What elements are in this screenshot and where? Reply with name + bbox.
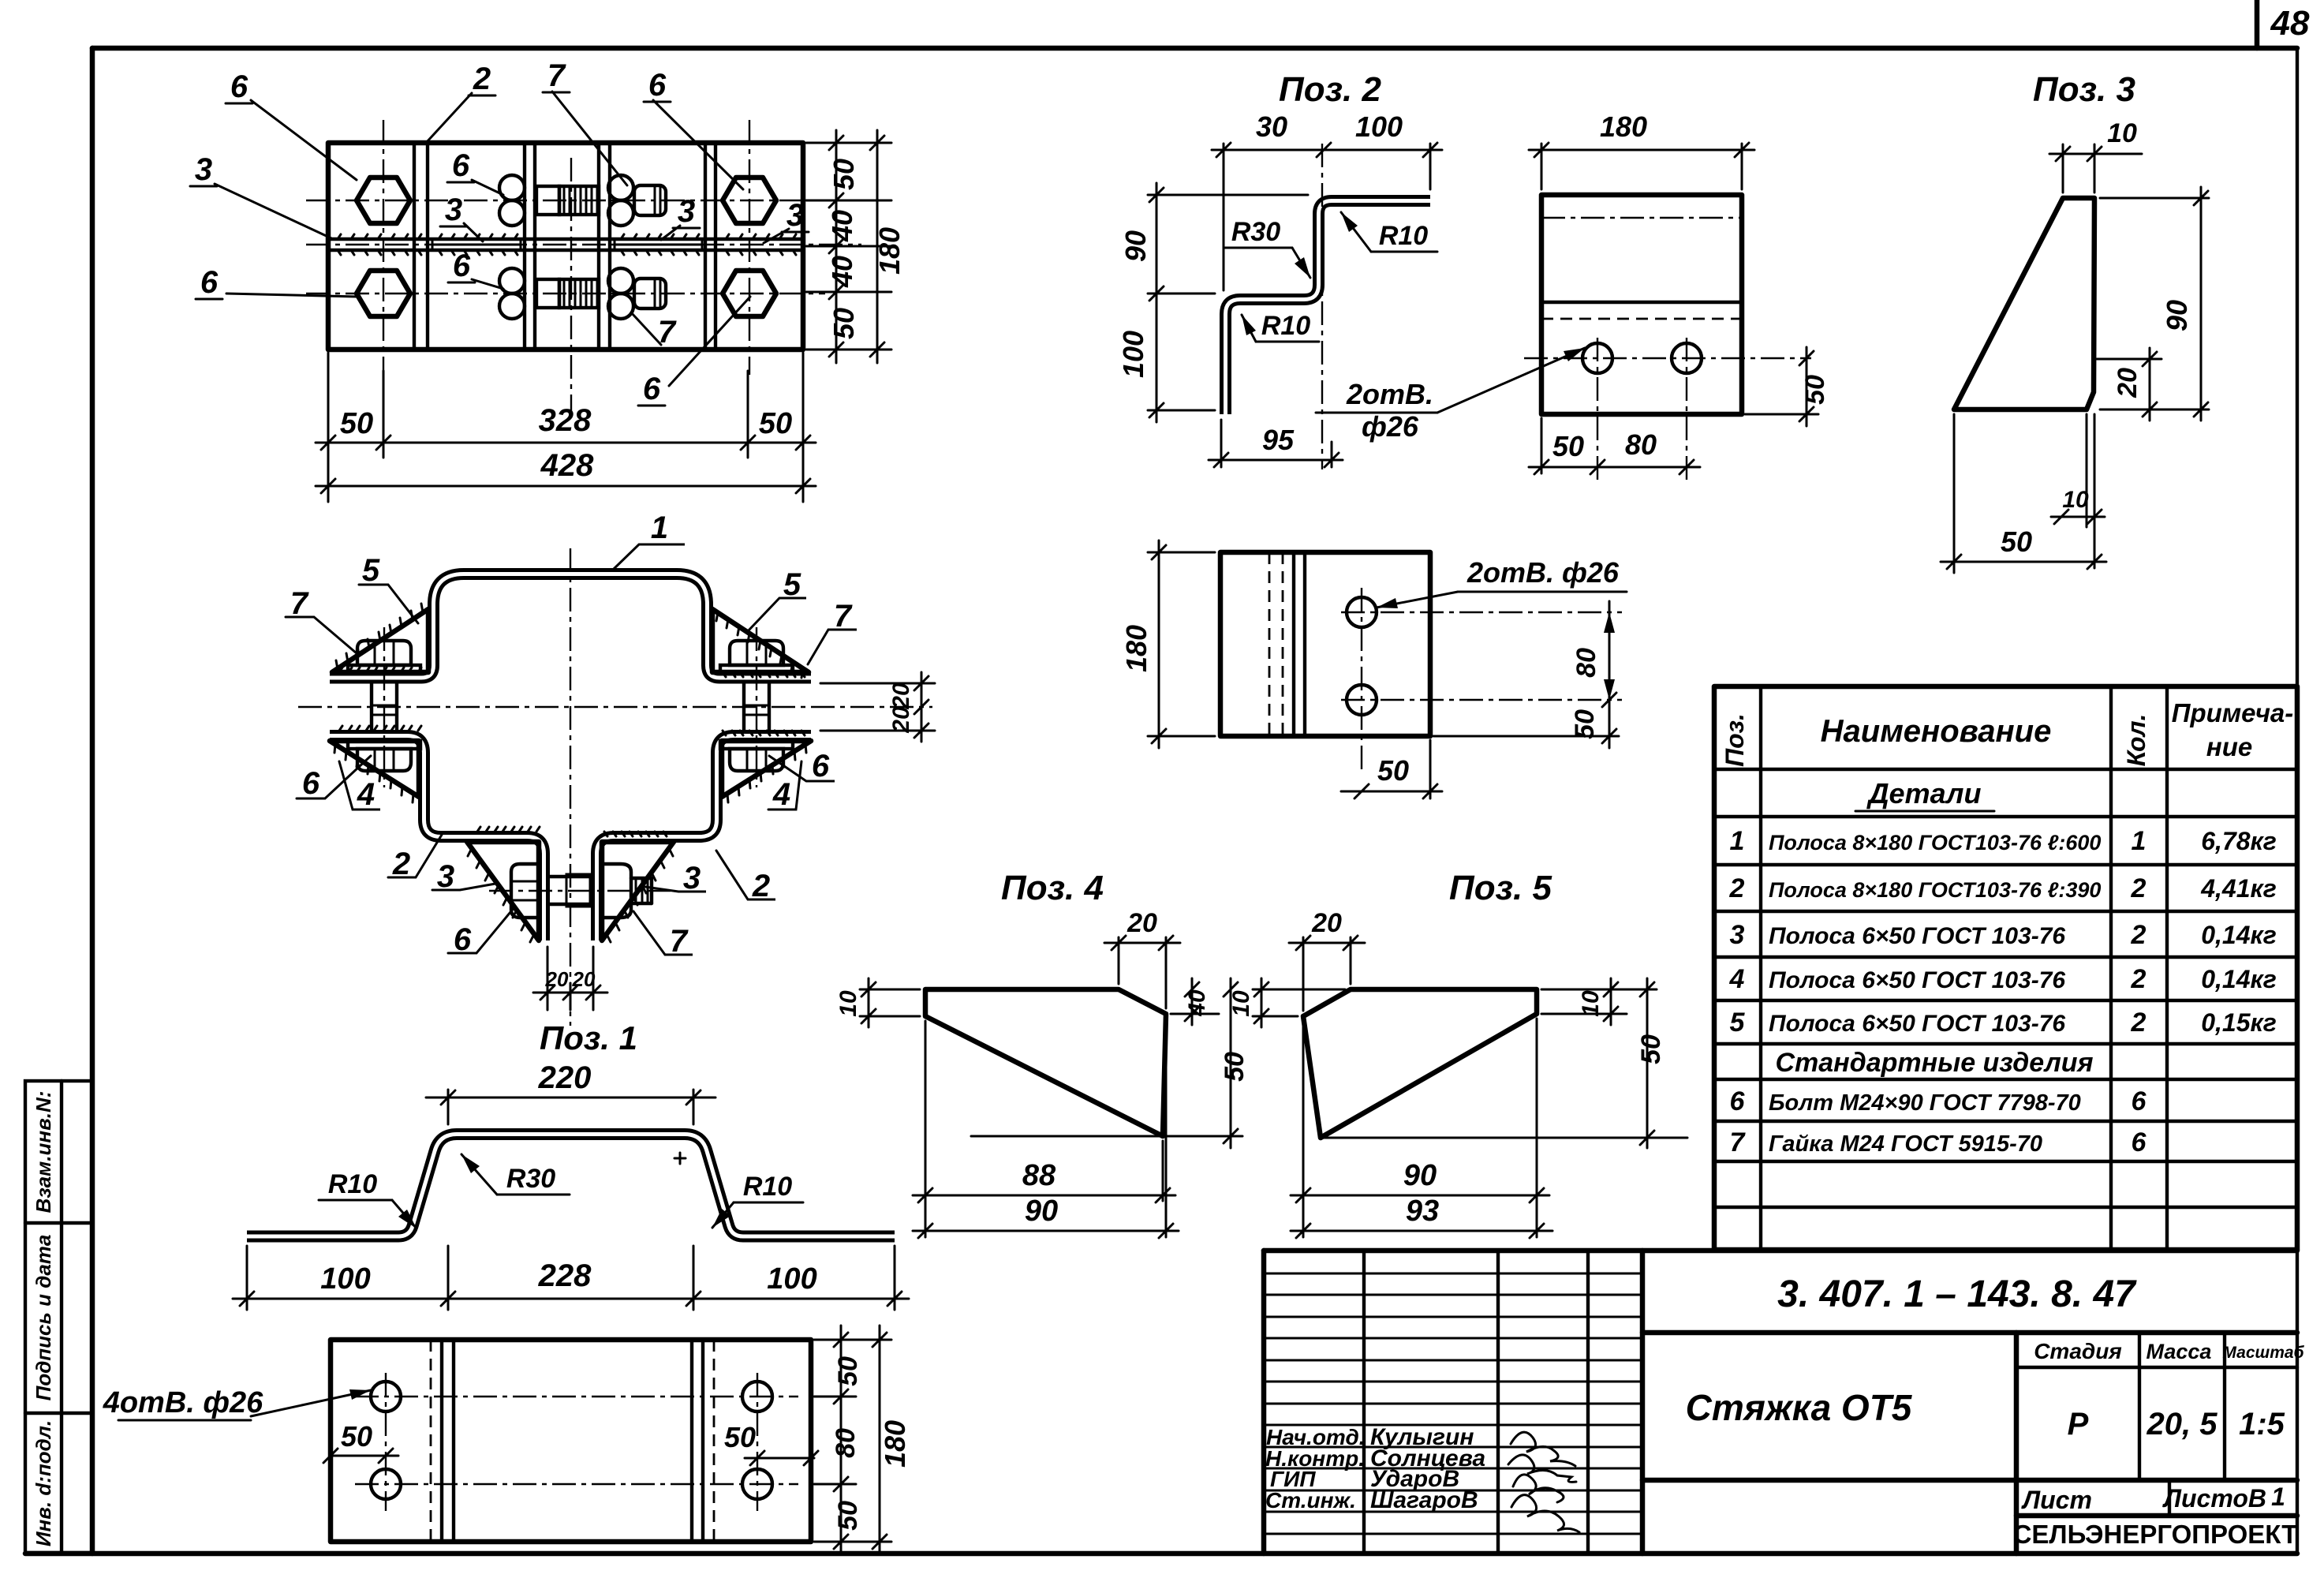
svg-text:4отВ. ф26: 4отВ. ф26: [103, 1386, 263, 1419]
view: part 2 plate lower: [1220, 552, 1430, 736]
svg-text:3: 3: [1730, 920, 1745, 950]
label R30 with leader (part1): [461, 1154, 570, 1195]
part 2 Z-profile detail outline: [1226, 201, 1431, 415]
svg-text:90: 90: [1403, 1159, 1437, 1192]
plate edge lines: [413, 143, 416, 350]
dimension 180 (plan right total): [870, 130, 906, 363]
label 3 leader (front view): [432, 859, 495, 894]
svg-text:2отВ. ф26: 2отВ. ф26: [1467, 556, 1620, 589]
svg-text:20: 20: [888, 706, 914, 734]
svg-text:Стадия: Стадия: [2034, 1339, 2122, 1363]
wedge 5 left (gusset): [332, 604, 428, 672]
dimension 10 (part4 left): [835, 978, 920, 1027]
svg-text:180: 180: [873, 227, 906, 275]
svg-text:Масштаб: Масштаб: [2222, 1344, 2304, 1362]
label 3 leader (plan): [764, 198, 809, 243]
part 3 strip left (plan): [432, 239, 521, 250]
svg-text:6: 6: [643, 372, 661, 406]
svg-text:7: 7: [547, 58, 566, 93]
dimension 10 (part3 top): [2049, 118, 2142, 193]
label 6 leader (plan): [196, 265, 357, 300]
bottom bolt 6 with nut 7 (front view): [489, 864, 672, 918]
dimension 90-93 (part5 bottom): [1291, 1019, 1552, 1238]
svg-text:50: 50: [341, 1420, 372, 1453]
svg-text:2: 2: [392, 847, 410, 881]
table header Примечание: [2172, 698, 2294, 761]
part 4 wedge outline: [925, 989, 1168, 1136]
label 5 leader (front view): [359, 553, 418, 623]
coupling bolt 6 with nut 7, upper row plan: [499, 175, 666, 226]
svg-text:2: 2: [2131, 873, 2147, 903]
label 2 leader (front view): [716, 851, 775, 903]
centerline left bolt column: [383, 120, 384, 375]
wedge 4 right (gusset under lug): [722, 741, 811, 802]
svg-text:3: 3: [678, 194, 695, 229]
centerlines part2 plate: [1524, 338, 1811, 483]
wedge 5 right (gusset): [712, 609, 809, 678]
svg-text:Полоса 6×50 ГОСТ 103-76: Полоса 6×50 ГОСТ 103-76: [1769, 1011, 2065, 1037]
dimension 20-20 (front bottom): [533, 947, 607, 1010]
coupling bolt 6 with nut 7, lower row plan: [499, 268, 666, 319]
hole f26 number 1 (part1 plan): [371, 1382, 401, 1412]
bolt 6 with nut 7 left (front view): [348, 627, 420, 787]
svg-text:Инв. d:подл.: Инв. d:подл.: [32, 1420, 55, 1546]
dimension 10 (part3 bottom step): [2051, 414, 2105, 568]
label 7 leader (front view): [808, 599, 857, 664]
label 3 leader (plan): [440, 193, 483, 241]
dimension 50 (part2 plate right): [1745, 347, 1830, 426]
svg-text:40: 40: [826, 210, 858, 242]
svg-text:50: 50: [759, 407, 792, 440]
bolt 6 hex head plan 3: [357, 271, 410, 316]
dimension 40 (part4 right upper): [1171, 978, 1219, 1025]
svg-text:90: 90: [1025, 1195, 1058, 1228]
label 2 leader (front view): [388, 835, 442, 881]
part 2 right Z-bracket outline: [597, 736, 812, 941]
dimension 50-80 (part2 plate bottom): [1529, 418, 1700, 474]
svg-text:40: 40: [826, 256, 858, 288]
svg-text:10: 10: [2062, 487, 2089, 513]
svg-text:R10: R10: [1379, 221, 1428, 251]
centerline seam horizontal: [306, 244, 861, 245]
label 7 leader (front view): [286, 586, 357, 653]
table row part 2: [1729, 873, 2277, 903]
centerline bolt row upper: [306, 200, 825, 201]
svg-text:0,14кг: 0,14кг: [2201, 965, 2277, 993]
dimension 90 (part3 right): [2100, 187, 2209, 421]
label 6 leader (plan): [226, 69, 357, 180]
svg-text:Наименование: Наименование: [1821, 714, 2052, 749]
svg-text:428: 428: [540, 448, 594, 483]
dimension 50 (part5 right): [1636, 978, 1666, 1148]
svg-text:6: 6: [2132, 1127, 2147, 1157]
svg-text:R10: R10: [328, 1169, 377, 1199]
view: part 1 plan detail: [331, 1340, 811, 1542]
svg-text:50: 50: [833, 1501, 863, 1531]
svg-text:6: 6: [812, 749, 830, 783]
svg-text:2: 2: [473, 62, 491, 96]
svg-text:Лист: Лист: [2021, 1486, 2092, 1514]
svg-text:10: 10: [1578, 990, 1604, 1017]
svg-text:Ст.инж.: Ст.инж.: [1265, 1488, 1356, 1513]
part 3 strip right (plan): [615, 239, 702, 250]
centerline mid vertical: [570, 158, 572, 414]
svg-text:1: 1: [2132, 826, 2147, 856]
svg-text:220: 220: [538, 1060, 592, 1095]
label 7 leader (plan): [631, 312, 680, 350]
svg-text:Поз. 4: Поз. 4: [1001, 869, 1104, 907]
svg-text:10: 10: [2107, 118, 2137, 148]
bolt 6 hex head plan 2: [723, 178, 776, 223]
label R10 lower with leader (part2): [1242, 311, 1319, 342]
view: part 2 plate (flattened) top: [1541, 195, 1742, 414]
svg-text:Полоса 8×180 ГОСТ103-76 ℓ:390: Полоса 8×180 ГОСТ103-76 ℓ:390: [1769, 878, 2101, 902]
svg-text:Поз. 3: Поз. 3: [2033, 70, 2135, 109]
svg-text:Болт М24×90 ГОСТ 7798-70: Болт М24×90 ГОСТ 7798-70: [1769, 1090, 2081, 1116]
dimension 90-100 (part2 left): [1117, 183, 1308, 422]
svg-text:88: 88: [1022, 1159, 1056, 1192]
svg-text:50: 50: [1636, 1034, 1666, 1064]
svg-text:4: 4: [1729, 964, 1745, 994]
svg-text:50: 50: [833, 1356, 863, 1386]
view: part 1 profile detail: [247, 1135, 895, 1237]
part 3 wedge outline: [1954, 198, 2094, 409]
svg-text:1: 1: [2271, 1483, 2285, 1511]
svg-text:5: 5: [783, 567, 801, 602]
wedge 3 right (gusset at centre): [602, 842, 674, 942]
title block grid: [1264, 1251, 2297, 1554]
dimension 220 (part1 top): [426, 1060, 716, 1124]
label 4 leader (front view): [339, 761, 380, 812]
svg-text:328: 328: [539, 403, 592, 438]
dimension 180 (part1 plan total): [872, 1326, 911, 1554]
label 3 leader (front view): [645, 861, 706, 896]
svg-text:Р: Р: [2068, 1407, 2089, 1442]
svg-text:4: 4: [357, 777, 375, 812]
svg-text:7: 7: [1730, 1127, 1747, 1157]
svg-text:180: 180: [1120, 625, 1153, 672]
svg-text:R30: R30: [1231, 217, 1280, 247]
part 2 left Z-bracket outline: [330, 736, 544, 941]
svg-text:6: 6: [2132, 1086, 2147, 1116]
svg-text:6: 6: [453, 249, 471, 283]
svg-text:80: 80: [1571, 648, 1601, 678]
svg-text:93: 93: [1406, 1195, 1439, 1228]
wedge 3 left (gusset at centre): [467, 842, 539, 942]
svg-text:20: 20: [545, 967, 569, 991]
bolt 6 hex head plan 4: [723, 271, 776, 316]
bolt 6 with nut 7 right (front view): [720, 627, 793, 787]
bend axis chain line (part2): [1321, 144, 1323, 469]
dimension 20-20 (front right): [820, 672, 935, 742]
label 6 leader (plan): [644, 68, 743, 189]
svg-text:4,41кг: 4,41кг: [2200, 874, 2277, 903]
svg-text:3: 3: [786, 198, 804, 233]
svg-text:Примеча-: Примеча-: [2172, 698, 2294, 727]
dimension 50 (part1 plan right): [724, 1421, 818, 1465]
svg-text:20: 20: [1311, 908, 1342, 938]
hole f26 number 3 (part1 plan): [742, 1382, 772, 1412]
label 2отв ф26 with leader (part2 lower): [1377, 556, 1627, 608]
svg-text:3: 3: [683, 861, 701, 896]
svg-text:90: 90: [2161, 300, 2193, 331]
svg-text:3: 3: [445, 193, 462, 227]
dimension 30-100 (part2 top): [1212, 110, 1442, 290]
view: assembly plan (top view): [306, 120, 861, 414]
svg-text:10: 10: [1228, 990, 1254, 1017]
svg-text:2: 2: [2131, 1008, 2147, 1038]
svg-text:100: 100: [1117, 331, 1149, 378]
svg-text:50: 50: [2001, 525, 2032, 558]
svg-text:6: 6: [200, 265, 219, 300]
svg-text:Поз. 2: Поз. 2: [1279, 70, 1381, 109]
table section Детали: [1855, 777, 1994, 811]
svg-text:Детали: Детали: [1866, 777, 1982, 810]
dimension 20 (part4 top): [1104, 908, 1180, 1008]
svg-text:50: 50: [340, 407, 373, 440]
label R30 with leader (part2): [1224, 217, 1310, 278]
svg-text:40: 40: [1184, 989, 1210, 1017]
dimension 50 (part4 right): [1168, 978, 1250, 1148]
label 5 leader (front view): [748, 567, 806, 631]
plate outline (parts 1,2 top view): [328, 143, 803, 350]
label 6 leader (front view): [769, 749, 835, 783]
svg-text:Масса: Масса: [2147, 1340, 2212, 1363]
hole f26 right (part2 plate): [1672, 343, 1702, 373]
svg-text:6: 6: [302, 766, 320, 801]
svg-text:5: 5: [362, 553, 380, 588]
label 6 leader (plan): [638, 297, 750, 406]
svg-text:ШагароВ: ШагароВ: [1370, 1487, 1478, 1513]
svg-text:50: 50: [1570, 709, 1600, 739]
label 3 leader (plan): [661, 194, 700, 240]
svg-text:48: 48: [2270, 4, 2310, 43]
part 1 omega strap outline: [330, 574, 811, 679]
label 6 leader (front view): [297, 756, 371, 801]
svg-text:7: 7: [290, 586, 309, 621]
svg-text:80: 80: [831, 1428, 861, 1458]
label 6 leader (plan): [447, 148, 503, 195]
svg-text:50: 50: [724, 1421, 756, 1453]
svg-text:50: 50: [1552, 430, 1584, 462]
svg-text:3: 3: [195, 152, 212, 187]
svg-text:90: 90: [1119, 230, 1152, 262]
centerline right bolt column: [749, 120, 750, 375]
svg-text:Стяжка ОТ5: Стяжка ОТ5: [1686, 1387, 1913, 1428]
svg-text:4: 4: [772, 777, 790, 812]
dimension 10 (part5 right upper): [1541, 978, 1657, 1025]
svg-text:2: 2: [2131, 964, 2147, 994]
svg-text:95: 95: [1262, 424, 1295, 456]
hole f26 left (part2 plate): [1582, 343, 1612, 373]
label 1 leader (front view): [613, 510, 685, 570]
svg-text:СЕЛЬЭНЕРГОПРОЕКТ: СЕЛЬЭНЕРГОПРОЕКТ: [2013, 1520, 2298, 1549]
label 2 leader (plan): [426, 62, 495, 143]
dimension 20 (part5 top): [1289, 908, 1365, 1011]
svg-text:50: 50: [828, 159, 860, 190]
svg-text:ф26: ф26: [1362, 410, 1419, 443]
centerline horizontal axis front view: [298, 706, 932, 708]
svg-text:0,14кг: 0,14кг: [2201, 921, 2277, 949]
svg-text:1:5: 1:5: [2239, 1407, 2285, 1442]
svg-text:80: 80: [1625, 428, 1657, 461]
svg-text:100: 100: [320, 1262, 370, 1296]
svg-text:1: 1: [1730, 826, 1745, 856]
svg-text:20: 20: [2113, 368, 2143, 398]
svg-text:Полоса 6×50 ГОСТ 103-76: Полоса 6×50 ГОСТ 103-76: [1769, 923, 2065, 949]
svg-text:7: 7: [834, 599, 853, 634]
label 4отв ф26 with leader: [103, 1386, 371, 1420]
svg-text:3. 407. 1 – 143. 8. 47: 3. 407. 1 – 143. 8. 47: [1777, 1273, 2137, 1315]
signature row ГИП Ударов: [1270, 1466, 1564, 1502]
label 6 leader (front view): [448, 907, 514, 957]
svg-text:Взам.инв.N:: Взам.инв.N:: [32, 1091, 55, 1213]
svg-text:228: 228: [538, 1258, 592, 1293]
dimension 100-228-100 (part1 bottom): [233, 1246, 909, 1310]
dimension 50-40-40-50 (plan right): [806, 130, 891, 363]
svg-text:3: 3: [437, 859, 454, 894]
svg-text:180: 180: [879, 1420, 911, 1468]
centerlines part2 lower view: [1341, 588, 1622, 773]
dimension 50 (part1 plan left): [323, 1420, 398, 1463]
dimension 50 (part2 lower bottom): [1341, 740, 1442, 798]
svg-text:20, 5: 20, 5: [2147, 1407, 2218, 1442]
svg-text:20: 20: [572, 967, 596, 991]
svg-text:Поз.: Поз.: [1721, 713, 1749, 767]
svg-text:ЛистоВ: ЛистоВ: [2162, 1484, 2266, 1513]
svg-text:Кол.: Кол.: [2122, 714, 2150, 767]
svg-text:6: 6: [230, 69, 248, 104]
svg-text:0,15кг: 0,15кг: [2201, 1008, 2277, 1037]
svg-text:6: 6: [1730, 1086, 1746, 1116]
svg-text:10: 10: [835, 990, 861, 1017]
svg-text:Стандартные изделия: Стандартные изделия: [1775, 1048, 2093, 1078]
dimension 88-90 (part4 bottom): [913, 1019, 1179, 1238]
dimension 428 (plan bottom): [316, 448, 816, 493]
left margin stamp table: [25, 1081, 92, 1553]
signature row Н.контр Солнцева: [1265, 1445, 1576, 1482]
signature row Нач.отд Кулыгин: [1266, 1424, 1575, 1466]
svg-text:30: 30: [1256, 110, 1287, 143]
svg-text:20: 20: [1127, 908, 1157, 938]
svg-text:6: 6: [452, 148, 470, 183]
label R10 upper with leader (part2): [1341, 212, 1437, 252]
bolt 6 hex head plan 1: [357, 178, 410, 223]
svg-text:5: 5: [1730, 1008, 1746, 1038]
signature row Ст.инж Шагаров: [1265, 1487, 1579, 1532]
svg-text:Гайка М24 ГОСТ 5915-70: Гайка М24 ГОСТ 5915-70: [1769, 1131, 2042, 1157]
label 3 leader (plan): [190, 152, 331, 238]
label R10 left with leader (part1): [319, 1169, 417, 1228]
weld serrations on lugs (front view): [339, 667, 805, 836]
table row part 5: [1730, 1008, 2277, 1038]
label 7 leader (plan): [543, 58, 627, 185]
svg-text:Полоса 8×180 ГОСТ103-76 ℓ:600: Полоса 8×180 ГОСТ103-76 ℓ:600: [1769, 831, 2101, 854]
table section Стандартные изделия: [1775, 1048, 2097, 1079]
svg-text:1: 1: [651, 510, 668, 545]
svg-text:50: 50: [1220, 1052, 1250, 1082]
svg-text:6: 6: [454, 922, 472, 957]
centerline bolt row lower: [306, 293, 825, 294]
dimension 180 (part2 plate top): [1529, 110, 1754, 189]
dimension 10 (part5 left): [1228, 978, 1345, 1027]
svg-text:2: 2: [2131, 920, 2147, 950]
svg-text:Полоса 6×50 ГОСТ 103-76: Полоса 6×50 ГОСТ 103-76: [1769, 967, 2065, 993]
table row part 6: [1730, 1086, 2147, 1116]
svg-text:2отВ.: 2отВ.: [1346, 378, 1433, 410]
dimension 50-80-50 (part1 plan right side): [814, 1326, 891, 1554]
table row part 1: [1730, 826, 2277, 856]
specification table grid: [1714, 686, 2297, 1250]
svg-text:50: 50: [1377, 754, 1409, 787]
svg-text:ние: ние: [2206, 732, 2252, 761]
svg-text:R10: R10: [1261, 311, 1310, 341]
dimension 20 (part3 right lower): [2097, 348, 2161, 421]
label R10 right with leader (part1): [712, 1172, 803, 1228]
svg-text:50: 50: [1800, 375, 1830, 405]
svg-text:6,78кг: 6,78кг: [2201, 827, 2277, 855]
svg-text:2: 2: [752, 869, 770, 903]
svg-text:7: 7: [670, 924, 689, 959]
svg-text:R10: R10: [743, 1172, 792, 1202]
dimension 50-328-50 (plan bottom): [316, 353, 816, 502]
part 5 wedge outline: [1303, 989, 1687, 1138]
svg-text:Подпись и дата: Подпись и дата: [32, 1235, 55, 1401]
svg-text:50: 50: [828, 308, 860, 339]
hole f26 upper (part2 lower view): [1347, 597, 1377, 627]
table row part 4: [1729, 964, 2277, 994]
svg-text:100: 100: [767, 1262, 816, 1296]
table row part 7: [1730, 1127, 2147, 1157]
svg-text:180: 180: [1600, 110, 1647, 143]
label 7 leader (front view): [633, 911, 693, 959]
svg-text:100: 100: [1355, 110, 1403, 143]
svg-text:6: 6: [648, 68, 667, 103]
dimension 80-50 (part2 lower right): [1433, 601, 1619, 748]
dimension 95 (part2 bottom): [1209, 420, 1343, 467]
centerlines part1 plan: [355, 1373, 798, 1511]
centerline vertical axis front view: [570, 548, 571, 1026]
svg-text:2: 2: [1729, 873, 1745, 903]
svg-text:Поз. 5: Поз. 5: [1449, 869, 1552, 907]
label 4 leader (front view): [768, 761, 801, 812]
dimension 50 (part3 bottom): [1941, 414, 2106, 573]
table row part 3: [1730, 920, 2277, 950]
svg-text:Поз. 1: Поз. 1: [540, 1019, 637, 1056]
label 6 leader (plan): [448, 249, 503, 289]
wedge 4 left (gusset under lug): [330, 741, 419, 802]
hole f26 number 2 (part1 plan): [371, 1469, 401, 1499]
label 2отв ф26 with leader (part2 plate): [1316, 348, 1585, 443]
svg-text:20: 20: [888, 682, 914, 710]
butt seam between straps (part 3 strips): [328, 237, 803, 241]
svg-text:R30: R30: [506, 1164, 555, 1194]
hole f26 lower (part2 lower view): [1347, 685, 1377, 715]
dimension 180 (part2 lower left): [1120, 540, 1215, 748]
hole f26 number 4 (part1 plan): [742, 1469, 772, 1499]
sheet number box 48: [2257, 0, 2310, 48]
